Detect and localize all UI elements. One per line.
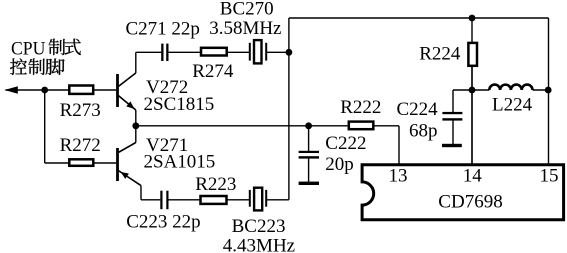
crystal BC270 3.58MHz: [249, 40, 267, 63]
svg-text:14: 14: [463, 166, 483, 187]
crystal BC223 4.43MHz: [249, 188, 267, 211]
svg-text:2SC1815: 2SC1815: [144, 94, 215, 115]
svg-text:BC223: BC223: [232, 216, 286, 237]
wire: BC270 to crystal-bus node: [267, 51, 289, 53]
label: hanzi KONG (line 2): [10, 58, 27, 74]
wire: L224 leads: [472, 89, 549, 91]
node: control line branch: [41, 87, 48, 94]
wire: crystal bus vertical: [288, 18, 290, 200]
pin 13 lead: [398, 126, 400, 164]
wire: top rail: [289, 17, 549, 19]
label: hanzi JIAO (line 2): [46, 59, 65, 75]
svg-text:15: 15: [540, 166, 559, 187]
svg-text:CPU: CPU: [11, 39, 46, 60]
resistor R274: [201, 48, 227, 56]
resistor R224: [468, 43, 477, 66]
wire: branch down to V271 base: [44, 90, 46, 163]
label: hanzi ZHI (line 2): [28, 58, 44, 74]
node: pin 15 net / L224: [545, 87, 552, 94]
node: top rail / R224: [469, 15, 476, 22]
label: hanzi ZHI (line 1): [49, 39, 65, 55]
svg-text:4.43MHz: 4.43MHz: [223, 236, 295, 253]
wire: R272 row to V271 base: [45, 162, 117, 164]
wire: V272 collector to C271: [136, 51, 162, 53]
svg-text:20p: 20p: [325, 154, 354, 175]
svg-text:R272: R272: [60, 135, 101, 156]
wire: CPU control line to V272 base: [6, 89, 117, 91]
svg-text:13: 13: [389, 166, 408, 187]
resistor R273: [69, 86, 93, 94]
wire: R224 branch, top rail to pin 14: [471, 18, 473, 164]
capacitor C224: [442, 112, 462, 121]
capacitor C223: [160, 191, 168, 210]
wire: C222 leads: [308, 126, 310, 182]
ground (below C222): [299, 182, 319, 185]
wire: V271 emitter drop: [140, 186, 142, 200]
wire: BC223 to crystal-bus vertical: [267, 199, 289, 201]
svg-text:BC270: BC270: [220, 0, 274, 20]
svg-text:R224: R224: [419, 44, 461, 65]
capacitor C271: [161, 44, 168, 61]
node: crystal bus corner: [286, 49, 293, 56]
svg-text:3.58MHz: 3.58MHz: [209, 18, 281, 39]
node: C222 tap: [305, 122, 312, 129]
svg-text:C222: C222: [325, 133, 366, 154]
svg-text:C224: C224: [397, 99, 439, 120]
resistor R272: [69, 159, 93, 166]
wire: R222 to pin 13 corner: [374, 125, 399, 127]
wire: emitter node to R222: [136, 125, 348, 127]
resistor R222: [349, 122, 374, 130]
transistor V272 (NPN 2SC1815): [118, 73, 136, 110]
label: hanzi SHI (line 1): [64, 39, 80, 55]
node: pin 14 net: [469, 87, 476, 94]
svg-text:68p: 68p: [409, 120, 438, 141]
svg-text:R222: R222: [340, 97, 381, 118]
wire: C224 leads: [453, 90, 472, 144]
svg-text:C223 22p: C223 22p: [126, 211, 200, 232]
node: emitter junction: [132, 122, 139, 129]
capacitor C222: [299, 151, 319, 159]
wire: V272 collector riser: [135, 52, 137, 73]
resistor R223: [201, 196, 227, 204]
svg-text:2SA1015: 2SA1015: [144, 152, 216, 173]
IC U1 CD7698 (with pin-1 notch): [362, 165, 563, 220]
svg-text:R273: R273: [60, 100, 101, 121]
transistor V271 (PNP 2SA1015): [118, 143, 142, 186]
svg-text:R223: R223: [195, 174, 236, 195]
ground (below C224): [442, 144, 462, 147]
wire: C223 to R223 to BC223: [168, 199, 249, 201]
pin 14 lead (lower part): [471, 67, 473, 164]
wire: V271 emitter to C223: [141, 199, 160, 201]
svg-text:CD7698: CD7698: [438, 191, 502, 212]
svg-text:L224: L224: [492, 95, 533, 116]
arrow to CPU (control pin): [5, 86, 18, 94]
svg-text:C271 22p: C271 22p: [126, 18, 200, 39]
wire: V272 emitter / V271 collector junction: [135, 110, 137, 143]
wire: C271 to R274 to BC270: [168, 51, 249, 53]
wire: right rail down to pin 15: [548, 18, 550, 164]
svg-text:R274: R274: [192, 61, 234, 82]
inductor L224: [489, 85, 532, 90]
